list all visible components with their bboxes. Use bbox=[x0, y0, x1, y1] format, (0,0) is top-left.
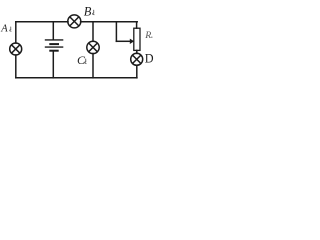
wire rheostat top lead bbox=[136, 22, 138, 28]
wire lamp C top lead bbox=[92, 22, 94, 42]
wire top rail right segment bbox=[81, 21, 138, 23]
lamp A bbox=[10, 43, 22, 55]
lamp B bbox=[68, 15, 81, 28]
return mark after B bbox=[92, 10, 94, 15]
battery plate long top bbox=[45, 39, 64, 41]
battery plate short upper bbox=[49, 43, 59, 45]
wire battery bottom lead bbox=[52, 51, 54, 78]
svg-text:D: D bbox=[145, 52, 154, 66]
wire bottom rail bbox=[16, 77, 137, 79]
return mark after C bbox=[84, 59, 86, 64]
wire slider branch horizontal bbox=[116, 40, 130, 42]
svg-text:B: B bbox=[84, 4, 92, 18]
wire rheostat bottom lead bbox=[136, 50, 138, 53]
wire lamp D bottom lead bbox=[136, 65, 138, 78]
svg-text:A: A bbox=[0, 24, 8, 35]
wire battery top lead bbox=[52, 22, 54, 40]
wire left rail upper bbox=[15, 22, 17, 43]
lamp C bbox=[87, 41, 99, 53]
svg-text:R: R bbox=[144, 30, 151, 41]
wire slider branch vertical bbox=[115, 22, 117, 42]
period after R bbox=[151, 37, 152, 38]
battery plate short bottom bbox=[49, 50, 58, 52]
svg-text:C: C bbox=[77, 53, 86, 67]
battery plate long lower bbox=[45, 46, 64, 48]
wire left rail lower bbox=[15, 55, 17, 78]
rheostat R box bbox=[134, 28, 140, 50]
return mark after A bbox=[9, 27, 11, 32]
wire lamp C bottom lead bbox=[92, 54, 94, 78]
lamp D bbox=[131, 53, 143, 65]
wire top rail left segment bbox=[16, 21, 68, 23]
rheostat slider arrowhead bbox=[130, 39, 134, 44]
